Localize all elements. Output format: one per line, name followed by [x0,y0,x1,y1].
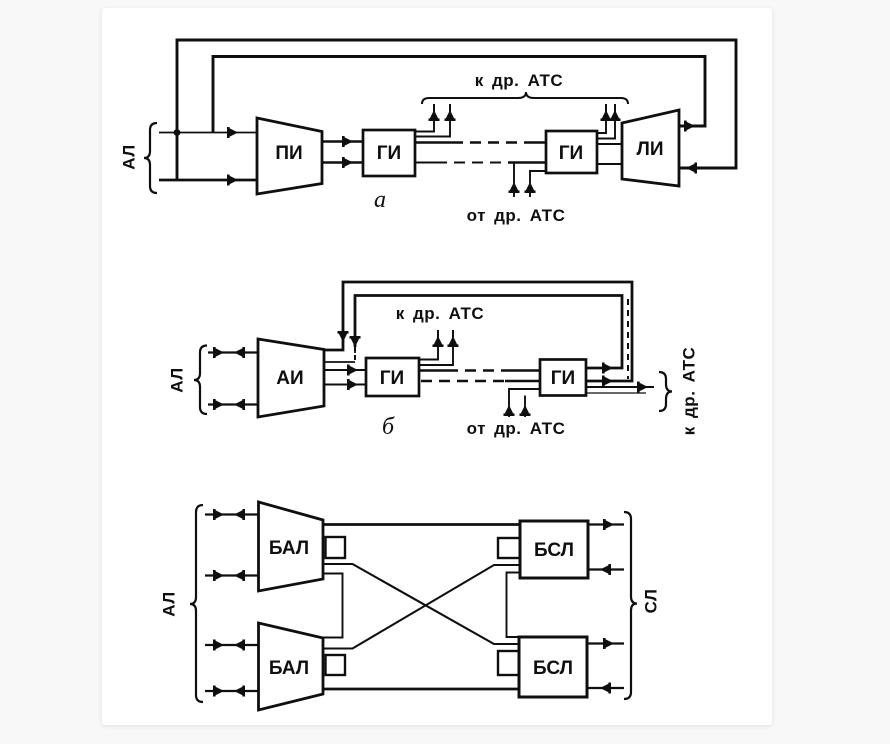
brace к др.АТС horizontal [422,92,628,104]
wire dashed trunk top [415,141,452,144]
square port БАЛ2 [326,655,346,675]
square port БАЛ1 [326,537,346,558]
wire link top straight [323,523,520,526]
box ГИ b2 [540,360,586,396]
wire diag2 connector [323,565,520,649]
wire от др.АТС b [530,171,546,197]
wire output 2 [588,568,624,570]
block БАЛ 1 [259,502,324,591]
svg-text:ЛИ: ЛИ [637,139,664,160]
block ЛИ [622,110,679,186]
wire dashed trunk top b [419,369,447,372]
box ГИ 1 [363,130,415,176]
svg-text:ГИ: ГИ [551,368,575,389]
wire dashed trunk bottom [415,162,436,164]
wire от др.АТС a [513,163,515,198]
block АИ [258,339,324,417]
brace right b [659,372,672,411]
wire input top [208,351,258,353]
wire output 3 [587,642,624,644]
wire diag1 connector [323,564,519,644]
arrow right out of ГИ2 lower [602,376,613,387]
svg-text:к др. АТС: к др. АТС [679,347,698,435]
box БСЛ 2 [519,637,587,697]
wire ГИ2-ЛИ bottom [597,163,622,165]
wire link bottom straight [323,688,519,691]
wire dashed trunk bottom b [421,380,505,383]
svg-text:ГИ: ГИ [380,368,404,389]
wire от др.АТС ba [509,389,540,417]
svg-text:а: а [374,187,386,213]
wire up к др.АТС 1b [415,104,450,137]
wire up к др.АТС 2a [597,104,606,133]
wire subscriber top [159,132,257,134]
arrow down into АИ inner [350,336,361,353]
box ГИ 2 [546,131,597,173]
svg-text:б: б [382,414,395,440]
block ПИ [257,118,322,194]
wire input 2 [205,574,258,576]
box ГИ b1 [366,358,419,396]
svg-text:от др. АТС: от др. АТС [467,206,566,225]
wire БАЛ1 lower port to БАЛ2 [323,574,343,638]
brace АЛ left big [190,505,203,702]
wire output 1 [588,523,624,525]
wire output к др.АТС right [586,386,654,388]
svg-text:ГИ: ГИ [377,143,401,164]
arrow right out of ГИ2 upper [602,363,613,374]
wire input 4 [205,690,258,692]
svg-text:АИ: АИ [276,368,303,389]
svg-text:АЛ: АЛ [167,367,186,392]
brace АЛ left [144,123,157,193]
arrow out of ЛИ (right) [684,121,695,132]
box БСЛ 1 [520,521,588,578]
arrow on subscriber bottom [227,175,238,186]
svg-text:БСЛ: БСЛ [533,658,573,679]
square port БСЛ1 [498,538,520,558]
svg-text:ГИ: ГИ [559,143,583,164]
wire up к др.АТС bb [419,330,453,365]
wire input 3 [205,644,258,646]
svg-text:от др. АТС: от др. АТС [467,419,566,438]
brace СЛ right [624,512,637,699]
wire outer loop [177,40,736,180]
svg-text:к др. АТС: к др. АТС [396,304,484,323]
wire ПИ-ГИ bottom [322,161,363,164]
svg-text:к др. АТС: к др. АТС [475,71,563,90]
wire inner loop [213,57,705,133]
wire ПИ-ГИ top [322,140,363,143]
wire dashed loop vertical [627,299,629,379]
arrow down into АИ outer [338,331,349,348]
wire output 4 [587,687,624,689]
arrow into ЛИ (left) [686,163,697,174]
brace АЛ left [194,346,207,415]
svg-text:АЛ: АЛ [119,144,138,169]
wire subscriber bottom [159,179,257,182]
wire up к др.АТС 1a [415,104,434,132]
wire loop inner [355,296,622,369]
wire АИ-ГИ top [324,369,366,371]
svg-text:БАЛ: БАЛ [269,658,309,679]
svg-text:ПИ: ПИ [275,143,302,164]
svg-text:БАЛ: БАЛ [269,538,309,559]
wire input 1 [205,513,258,515]
wire ГИ2-ЛИ top [597,143,622,145]
block БАЛ 2 [259,623,324,710]
wire up к др.АТС 2b [597,104,615,139]
svg-text:СЛ: СЛ [641,589,660,614]
wire inner loop dashed tail [354,346,356,362]
arrow on subscriber top [227,127,238,138]
wire up к др.АТС ba [419,330,438,360]
svg-text:БСЛ: БСЛ [534,540,574,561]
wire input bottom [208,403,258,405]
wire loop outer [324,282,632,381]
svg-text:АЛ: АЛ [159,591,178,616]
wire от др.АТС bb [524,396,526,418]
wire output thin below [586,392,646,394]
wire БСЛ1 lower port to БСЛ2 [507,573,521,638]
square port БСЛ2 [498,651,519,675]
wire АИ-ГИ bottom [324,384,366,386]
node junction dot [174,129,181,136]
